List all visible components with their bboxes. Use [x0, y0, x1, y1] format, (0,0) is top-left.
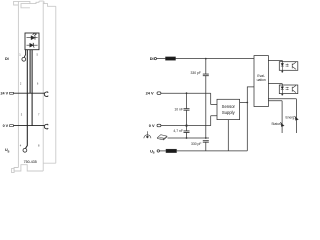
LED D1 (status LED symbol) [27, 36, 38, 40]
wire C4 lower to UB [205, 142, 207, 151]
svg-text:6: 6 [37, 82, 39, 86]
terminal box 0V [10, 125, 14, 127]
node junction DI/C1 [205, 58, 207, 60]
inductor/filter L2 (UB) [166, 149, 177, 152]
svg-text:uation: uation [257, 78, 266, 82]
node junction 0V/C2/C3 [185, 124, 187, 126]
svg-text:DI: DI [150, 56, 154, 61]
DIN rail icon [157, 135, 167, 140]
svg-text:DI: DI [5, 57, 9, 61]
capacitor C4 330pF [203, 141, 209, 143]
module inner vertical edge [42, 2, 44, 171]
svg-text:2: 2 [20, 82, 22, 86]
wire C1 lower to shield [205, 76, 207, 138]
node junction shield/C4 [205, 137, 207, 139]
clamp contact 0V [44, 124, 48, 129]
module top profile [18, 1, 55, 6]
capacitor C1 330pF [203, 74, 209, 76]
electronics box with LEDs (top of module) [25, 33, 39, 50]
svg-text:3: 3 [21, 112, 23, 116]
wire 24V through module [13, 92, 44, 94]
svg-text:4,7 nF: 4,7 nF [173, 129, 183, 133]
svg-text:330 pF: 330 pF [190, 71, 201, 75]
svg-text:0 V: 0 V [3, 124, 9, 128]
svg-text:4: 4 [20, 144, 22, 148]
optocoupler U5 LED [281, 85, 283, 94]
earth symbol (functional earth) [144, 131, 151, 138]
node 24V terminal [157, 92, 161, 95]
wire evaluation to optocoupler U5 [268, 84, 282, 95]
wire evaluation to Energ signal [268, 99, 296, 133]
leg UB rail (to pin 4) [25, 50, 27, 149]
wire sensor supply output down [227, 120, 229, 151]
wire C1 upper [205, 59, 207, 75]
svg-text:Energ.: Energ. [285, 116, 295, 120]
wire UB feedback riser [247, 87, 254, 151]
svg-text:B: B [153, 152, 155, 155]
svg-text:B: B [8, 151, 10, 154]
svg-text:Status: Status [271, 122, 281, 126]
wire DI to filter [157, 58, 166, 60]
sensor supply block U2 [217, 99, 240, 119]
node 0V terminal [157, 124, 161, 127]
wire 0V [161, 116, 217, 126]
svg-text:5: 5 [37, 53, 39, 57]
node DI terminal [154, 58, 156, 60]
module bottom-left foot [12, 168, 15, 172]
optocoupler U5 light arrows [286, 88, 289, 90]
wire C2 lower to 0V [186, 110, 188, 125]
node UB terminal [157, 150, 159, 152]
svg-text:8: 8 [38, 144, 40, 148]
module left edge [17, 1, 19, 167]
svg-text:Supply: Supply [222, 110, 236, 115]
node junction riser/sensor supply [246, 102, 248, 104]
svg-text:0 V: 0 V [149, 123, 155, 128]
node junction shield/C3 [186, 137, 188, 139]
svg-text:Sensor: Sensor [222, 104, 236, 109]
node below optocoupler U5 [281, 94, 283, 96]
UB contact circle (pin 4) [23, 148, 27, 152]
DI contact circle (pin 1) [22, 57, 26, 61]
wire evaluation to optocoupler U4 [268, 60, 282, 71]
clamp contact 24V [44, 92, 48, 97]
inductor/filter L1 (DI) [166, 57, 176, 60]
svg-text:24 V: 24 V [1, 92, 9, 96]
capacitor C3 4.7nF [184, 131, 190, 133]
leg 0V tap [31, 50, 33, 126]
leg pin1 to DI contact circle [24, 50, 26, 58]
module top latch channel [21, 4, 30, 8]
svg-text:10 nF: 10 nF [174, 108, 183, 112]
arrow signal Status [280, 122, 282, 124]
node junction 24V/C2 [186, 92, 188, 94]
wire UB line [177, 150, 248, 152]
svg-text:7: 7 [38, 112, 40, 116]
svg-text:1: 1 [19, 53, 21, 57]
wire evaluation to Status signal [268, 101, 282, 133]
svg-text:330 pF: 330 pF [191, 142, 202, 146]
diode D2 (zener) [27, 43, 38, 47]
optocoupler U4 box [279, 62, 298, 71]
arrow signal Energy [294, 116, 296, 118]
wire UB to filter [159, 150, 166, 152]
optocoupler U4 phototransistor [292, 62, 296, 69]
leg 24V tap [29, 50, 31, 93]
wire riser to sensor supply [240, 102, 248, 104]
evaluation block U3 [254, 56, 268, 107]
wire 24V [161, 93, 217, 104]
shield rail wire [168, 137, 210, 139]
wire C3 lower to shield [186, 132, 188, 138]
wire DI to evaluation [176, 58, 255, 60]
module top mounting tab [14, 1, 19, 5]
wire 0V through module [13, 125, 44, 127]
optocoupler U4 light arrows [286, 64, 289, 66]
svg-text:24 V: 24 V [146, 91, 154, 96]
optocoupler U5 phototransistor [292, 86, 296, 93]
wire C3 upper [186, 126, 188, 131]
optocoupler U4 LED [281, 62, 283, 72]
module housing outline (left terminal block, light gray) [12, 1, 56, 173]
node below optocoupler U4 [281, 71, 283, 73]
optocoupler U5 box [279, 85, 298, 94]
capacitor C2 10nF [184, 109, 190, 111]
internal contact strip (dark vertical legs) [24, 50, 32, 149]
wire C2 upper [186, 93, 188, 109]
svg-text:750-435: 750-435 [24, 160, 37, 164]
module right edge [55, 6, 57, 163]
module bottom profile with rail notch [14, 163, 56, 171]
terminal box 24V [10, 92, 14, 94]
